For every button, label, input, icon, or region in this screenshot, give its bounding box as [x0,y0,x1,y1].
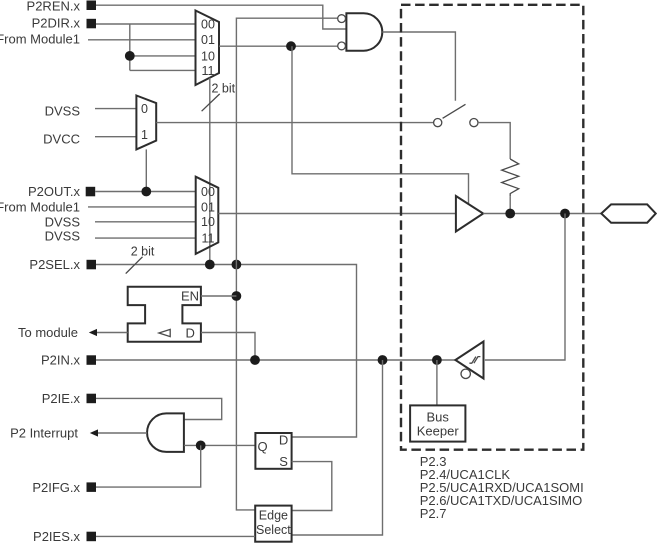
resistor R1 (pullup/pulldown) [502,159,519,196]
wire P2IN line from Schmitt buffer [96,359,455,361]
svg-text:00: 00 [201,185,215,199]
switch S1 contact left [434,119,442,127]
bus-width slash (bottom) [126,257,143,274]
junction dot D latch tap [250,355,260,365]
svg-text:DVSS: DVSS [45,103,81,118]
wire resistor to pad line [509,196,511,213]
junction dot resistor/pad [505,209,515,219]
wire bus keeper connection [436,360,438,405]
wire P2DIR.x to mux M1 input 00 [96,23,196,25]
svg-text:EN: EN [181,289,199,304]
terminal square P2SEL.x [87,260,97,270]
wire pad line to pin hexagon [483,213,601,215]
wire to mux M1 input 11 [130,69,196,71]
wire latch EN to P2SEL vertical [201,295,237,297]
svg-text:P2IE.x: P2IE.x [42,391,81,406]
wire DVSS to mux M2 input 11 [95,237,196,239]
bus-width slash (top) [202,94,220,111]
svg-text:P2REN.x: P2REN.x [27,0,81,14]
switch S1 contact right [470,119,478,127]
svg-text:P2IN.x: P2IN.x [41,353,81,368]
svg-text:P2 Interrupt: P2 Interrupt [10,426,78,441]
svg-text:11: 11 [202,232,215,246]
wire mux select vertical (M1/M2 select from P2SEL) [209,78,211,265]
svg-text:DVSS: DVSS [45,214,81,229]
output driver buffer [456,196,483,232]
svg-text:2 bit: 2 bit [131,244,155,258]
svg-text:Select: Select [256,523,291,537]
junction dot IFG net [196,441,206,451]
wire pad tap down to input Schmitt buffer [485,214,565,361]
wire IFG net down to P2IFG terminal [96,445,201,487]
wire interrupt output [97,432,147,434]
terminal square P2IES.x [87,532,97,542]
terminal square P2IN.x [87,355,97,365]
svg-text:P2SEL.x: P2SEL.x [29,257,80,272]
junction dot P2OUT / M3 select [141,187,151,197]
svg-text:Keeper: Keeper [417,424,460,439]
wire DVCC to mux M3 input 1 [95,136,136,138]
arrowhead To module [89,329,97,336]
wire AND U1 output to switch control [382,32,455,101]
wire latch D to P2IN line [201,333,255,361]
wire edge-select tap down and into Edge Select box [292,360,383,535]
svg-text:P2.7: P2.7 [420,506,447,521]
terminal square P2DIR.x [87,19,97,29]
svg-text:From Module1: From Module1 [0,199,80,214]
terminal square P2IFG.x [87,482,97,492]
interrupt flag flip-flop [255,433,291,469]
wire P2SEL.x across to flag flip-flop D input [96,265,357,438]
input latch (EN / D) [128,287,201,342]
wire mux M1 output to AND U1 lower input [219,45,338,47]
wire P2DIR.x branch vertical [129,24,131,70]
svg-text:P2IFG.x: P2IFG.x [32,480,80,495]
wire DVSS to mux M2 input 10 [95,221,196,223]
svg-text:10: 10 [201,215,215,229]
svg-text:11: 11 [202,64,215,78]
wire switch to resistor [478,123,510,159]
svg-text:2 bit: 2 bit [212,81,236,95]
input Schmitt buffer [455,342,483,379]
svg-text:To module: To module [18,325,78,340]
svg-text:D: D [279,432,288,447]
svg-text:10: 10 [201,49,215,63]
wire P2IE.x to interrupt AND gate [96,398,222,419]
wire From Module1 to mux M2 input 01 [88,206,196,208]
junction dot input tap/pad [560,209,570,219]
svg-text:From Module1: From Module1 [0,32,80,47]
AND gate U1 (pullup enable logic) [346,13,382,50]
wire DVSS to mux M3 input 0 [95,108,136,110]
svg-text:DVSS: DVSS [45,229,81,244]
svg-text:01: 01 [201,200,215,214]
svg-text:0: 0 [141,102,148,116]
wire mux M3 select down to P2OUT line [145,149,147,191]
junction dot on P2DIR branch [125,51,135,61]
svg-text:DVCC: DVCC [43,131,80,146]
Bus Keeper box [410,405,465,441]
wire P2IES.x to Edge Select [96,535,255,537]
inverter bubble U1 top input [338,15,346,23]
svg-text:01: 01 [201,33,215,47]
dashed pin-function boundary [401,5,583,450]
terminal square P2IE.x [87,394,97,404]
svg-text:1: 1 [141,128,148,142]
wire M1 output down to output driver enable [292,46,469,204]
wire P2SEL vertical to AND U1 top input and Edge Select [236,18,337,510]
arrowhead P2 Interrupt [90,429,98,436]
Edge Select box [255,506,291,542]
junction dot on M1 output [286,41,296,51]
mux M3 (pullup/pulldown select) [136,96,156,150]
junction dot bus keeper tap [432,355,442,365]
hysteresis symbol [469,357,480,364]
svg-text:P2IES.x: P2IES.x [33,529,80,543]
svg-text:Q: Q [258,439,268,454]
wire latch output to module [96,332,128,334]
wire From Module1 to mux M1 input 01 [88,39,196,41]
svg-text:P2OUT.x: P2OUT.x [28,184,81,199]
terminal square P2REN.x [87,1,97,11]
svg-text:00: 00 [201,17,215,31]
mux M1 (direction select) [196,11,220,86]
mux M2 (output select) [196,177,219,254]
svg-text:D: D [186,325,195,340]
wire P2OUT.x to mux M2 input 00 [95,191,196,193]
wire flip-flop S to Edge Select [292,462,332,511]
AND gate U2 (interrupt, mirrored) [147,413,184,452]
junction dot P2SEL / AND input line [232,260,242,270]
junction dot EN wire [232,291,242,301]
svg-text:Bus: Bus [426,410,449,425]
svg-text:Edge: Edge [259,508,288,522]
wire IFG net to flip-flop Q [184,444,255,446]
latch clock triangle [159,329,170,336]
enable bubble on Schmitt buffer [461,369,470,378]
pin pad hexagon [601,204,655,222]
wire mux M2 output to output driver [218,213,456,215]
switch S1 lever [443,104,466,118]
inverter bubble U1 bottom input [338,42,346,50]
wire P2REN.x to AND U1 middle input [96,5,346,29]
junction dot edge-select tap [378,355,388,365]
junction dot P2SEL / mux select [205,260,215,270]
wire mux M3 output to switch [156,122,433,124]
svg-text:P2DIR.x: P2DIR.x [32,15,81,30]
terminal square P2OUT.x [86,187,96,197]
svg-text:S: S [279,454,288,469]
wire to mux M1 input 10 [130,55,196,57]
